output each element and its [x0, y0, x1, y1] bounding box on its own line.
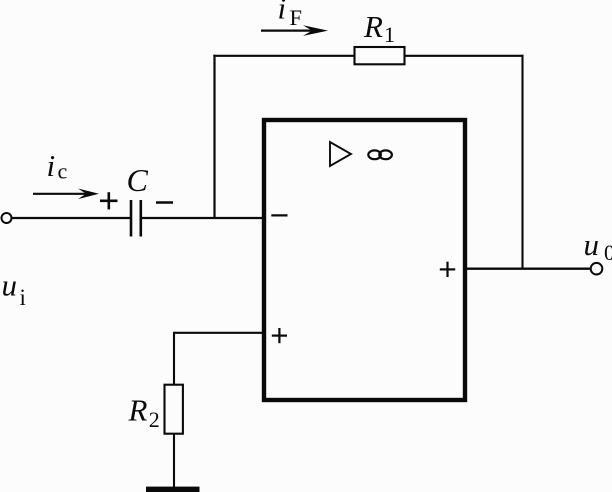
- wire feedback top left segment: [213, 55, 355, 57]
- svg-text:i: i: [20, 285, 26, 310]
- op-amp U1: [264, 120, 465, 400]
- op-amp output plus sign: [440, 262, 455, 277]
- svg-text:c: c: [58, 159, 68, 184]
- wire op-amp output: [465, 268, 591, 270]
- op-amp non-inverting input plus sign: [272, 328, 287, 343]
- resistor R1: [355, 47, 405, 64]
- current arrow i_c: [33, 189, 99, 200]
- svg-text:2: 2: [149, 407, 160, 432]
- wire input to capacitor: [12, 217, 131, 219]
- svg-text:R: R: [128, 393, 148, 428]
- current arrow i_F: [261, 25, 328, 36]
- svg-text:i: i: [278, 0, 287, 26]
- svg-text:F: F: [290, 5, 303, 30]
- wire feedback vertical left: [213, 55, 215, 218]
- wire down to R2: [173, 332, 175, 385]
- svg-text:u: u: [584, 227, 600, 262]
- ground: [146, 487, 200, 492]
- wire non-inverting input horizontal: [174, 332, 264, 334]
- output terminal circle: [591, 263, 603, 275]
- op-amp inverting input minus sign: [271, 214, 287, 216]
- wire capacitor to op-amp inverting input: [142, 217, 264, 219]
- capacitor C: [131, 200, 141, 237]
- wire R2 to ground: [173, 434, 175, 487]
- resistor R2: [165, 385, 183, 434]
- svg-text:1: 1: [384, 22, 395, 47]
- op-amp triangle symbol: [330, 142, 351, 166]
- wire feedback vertical right: [521, 55, 523, 269]
- wire feedback top right segment: [405, 55, 524, 57]
- svg-text:0: 0: [604, 240, 612, 265]
- svg-text:C: C: [127, 162, 149, 198]
- svg-text:i: i: [47, 148, 56, 183]
- svg-text:R: R: [363, 9, 383, 44]
- op-amp infinity symbol: [368, 150, 392, 159]
- input terminal circle: [2, 213, 12, 223]
- plus sign capacitor left: [100, 192, 118, 209]
- svg-text:u: u: [2, 268, 18, 303]
- minus sign capacitor right: [156, 201, 173, 204]
